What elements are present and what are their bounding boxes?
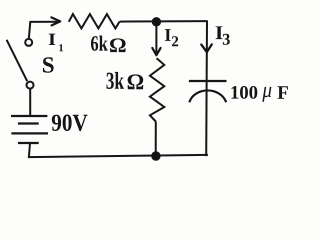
wire right branch (corner down to bottom wire, through capacitor) bbox=[205, 21, 208, 157]
capacitor C1 bottom curved plate bbox=[189, 90, 226, 102]
battery B1 plate 2 (short) bbox=[18, 122, 39, 124]
switch S bottom terminal circle bbox=[27, 82, 34, 89]
switch S top terminal circle bbox=[25, 39, 32, 46]
wire (battery to bottom wire) bbox=[29, 143, 30, 157]
switch S blade (open, diagonal) bbox=[7, 40, 28, 81]
node top (junction dot) bbox=[152, 17, 161, 26]
wire middle branch lower (resistor to bottom node) bbox=[155, 122, 157, 157]
wire top-left (from switch up and right to I1 arrow) bbox=[29, 22, 60, 39]
label 100 &#956;F bbox=[231, 86, 287, 102]
capacitor C1 top plate bbox=[189, 80, 227, 82]
node bottom (junction dot) bbox=[151, 151, 160, 160]
arrowhead I1 (right-pointing on top wire) bbox=[51, 17, 60, 25]
wire (resistor to right corner) bbox=[120, 20, 208, 23]
battery B1 plate 3 (long) bbox=[11, 132, 48, 134]
label I1 bbox=[49, 34, 63, 52]
label 3k&#937; bbox=[106, 72, 143, 89]
battery B1 plate 1 (long) bbox=[11, 115, 47, 117]
battery B1 plate 4 (short) bbox=[18, 142, 39, 144]
wire middle branch upper (node down to arrow tip) bbox=[155, 22, 157, 56]
arrowhead I3 (down-pointing on right branch) bbox=[201, 44, 212, 52]
label S bbox=[43, 57, 54, 72]
label 90V bbox=[52, 115, 88, 132]
wire (switch bottom terminal to battery) bbox=[29, 89, 31, 116]
resistor R1 6kΩ (horizontal zigzag) bbox=[69, 14, 120, 28]
wire bottom (battery to right branch) bbox=[28, 155, 208, 157]
label I2 bbox=[165, 29, 178, 46]
label 6k&#937; bbox=[91, 35, 126, 52]
resistor R2 3kΩ (vertical zigzag) bbox=[150, 58, 164, 121]
label I3 bbox=[216, 26, 230, 44]
arrowhead I2 (down-pointing on middle branch) bbox=[152, 48, 160, 55]
